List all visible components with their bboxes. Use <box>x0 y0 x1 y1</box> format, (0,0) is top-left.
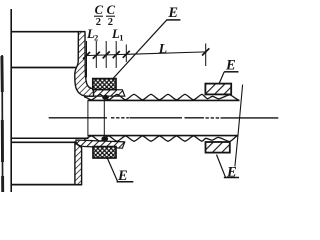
extension line 3 <box>105 41 107 68</box>
tick slash 5 <box>123 51 130 58</box>
top packing wave (zigzag) <box>84 94 239 100</box>
svg-text:C: C <box>95 3 104 17</box>
svg-text:2: 2 <box>94 33 98 43</box>
tick slash 1 <box>83 52 90 59</box>
svg-text:2: 2 <box>96 17 101 28</box>
centerline <box>49 117 279 119</box>
bottom plate bottom line <box>11 184 82 186</box>
ink blob top junction <box>102 95 109 100</box>
shaft top line <box>88 99 240 101</box>
top foot band (hatched) <box>86 89 125 96</box>
extension line 2 <box>95 41 97 68</box>
tick slash 3 <box>103 51 110 58</box>
top plate top line <box>11 31 85 33</box>
svg-text:L: L <box>158 42 168 57</box>
svg-text:E: E <box>226 165 237 181</box>
through extension line right <box>103 97 105 137</box>
tick slash 4 <box>113 51 120 58</box>
ink blob bottom junction <box>101 136 108 141</box>
bottom packing ring E (cross-hatched) <box>93 147 116 158</box>
svg-text:E: E <box>167 5 178 21</box>
bottom plate inner line <box>11 137 89 139</box>
shaft break line <box>235 85 243 167</box>
bottom wall strip (hatched) <box>75 142 82 184</box>
bottom plate top line <box>11 141 76 143</box>
shaft bottom line <box>88 135 238 137</box>
leader E bottom-left <box>107 158 117 181</box>
left break edge line <box>10 9 12 192</box>
leader E top-left <box>112 20 167 80</box>
dimension end tick <box>205 44 207 67</box>
svg-text:C: C <box>107 3 116 17</box>
bottom foot band (hatched) <box>76 140 125 148</box>
leader E bottom-right <box>217 155 226 178</box>
top wall strip with J-hook gland (hatched) <box>75 32 94 97</box>
bottom packing wave (zigzag) <box>84 136 238 142</box>
right bottom ring E (hatched) <box>206 142 230 153</box>
tick slash 2 <box>93 52 100 59</box>
top packing ring E (cross-hatched) <box>93 79 116 90</box>
through extension line left <box>87 101 89 137</box>
svg-text:1: 1 <box>119 33 123 43</box>
right top ring E (hatched) <box>205 84 231 95</box>
extension line 1 <box>86 41 88 78</box>
leader E top-right <box>219 72 224 84</box>
dimension line L <box>85 52 206 56</box>
svg-text:E: E <box>225 58 236 74</box>
extension line 5 <box>125 45 127 63</box>
extension line 4 <box>115 41 117 68</box>
svg-text:E: E <box>117 168 128 184</box>
top plate bottom line <box>11 67 76 69</box>
page scan edge band <box>1 55 4 192</box>
